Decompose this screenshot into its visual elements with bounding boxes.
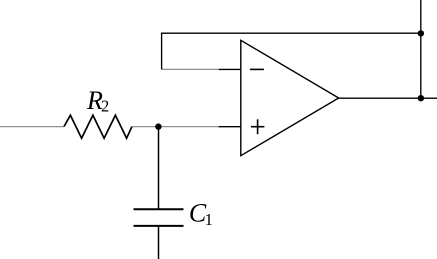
svg-text:1: 1: [205, 210, 213, 229]
svg-text:2: 2: [101, 97, 109, 116]
